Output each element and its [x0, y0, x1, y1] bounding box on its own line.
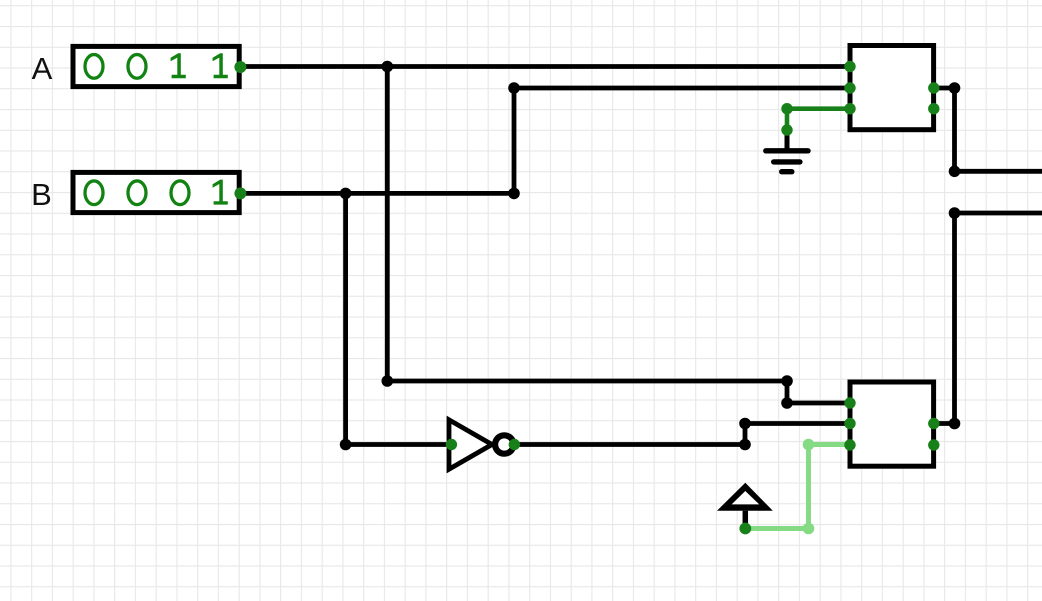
corner dot U2 out 1 — [949, 418, 961, 430]
wire B branch down to NOT gate input — [346, 193, 451, 444]
corner dot U1 out 2 — [949, 166, 961, 178]
label B — [31, 177, 52, 212]
wire U1 output to right edge — [934, 88, 1042, 171]
wire A branch down to U2 pin1 — [387, 67, 851, 404]
corner dot B branch — [340, 439, 352, 451]
digit 0 — [128, 181, 146, 205]
wire A main from input A to U1 pin1 — [240, 64, 851, 69]
subcircuit U2 — [844, 382, 939, 466]
input B box — [73, 172, 246, 212]
ground wire to U1 pin3 — [781, 103, 851, 136]
corner dot B up 1 — [508, 188, 520, 200]
digit 0 — [171, 181, 189, 205]
ground — [766, 130, 808, 172]
corner dot U1 out 1 — [949, 82, 961, 94]
corner dot U2 out 2 — [949, 207, 961, 219]
digit 1 — [213, 53, 228, 78]
digit 0 — [85, 55, 103, 79]
NOT gate U3 — [446, 420, 520, 469]
digit 1 — [171, 53, 186, 78]
corner dot NOT out 2 — [739, 418, 751, 430]
junction B — [340, 188, 352, 200]
svg-text:A: A — [32, 51, 53, 86]
input A box — [73, 46, 246, 86]
subcircuit U1 — [844, 46, 939, 130]
wire NOT output to U2 pin2 — [515, 424, 851, 445]
power wire to U2 pin3 — [745, 439, 851, 535]
wire U2 output to right edge — [934, 213, 1042, 424]
corner dot A branch 1 — [382, 375, 394, 387]
digit 1 — [213, 180, 228, 205]
junction A — [382, 61, 394, 73]
corner dot B up 2 — [508, 82, 520, 94]
power VCC — [717, 483, 773, 535]
digit 0 — [128, 55, 146, 79]
digit 0 — [85, 181, 103, 205]
corner dot NOT out 1 — [739, 439, 751, 451]
svg-text:B: B — [31, 177, 52, 212]
label A — [32, 51, 53, 86]
corner dot A branch 3 — [781, 397, 793, 409]
wire B main up to U1 pin2 — [240, 88, 851, 193]
corner dot A branch 2 — [781, 375, 793, 387]
